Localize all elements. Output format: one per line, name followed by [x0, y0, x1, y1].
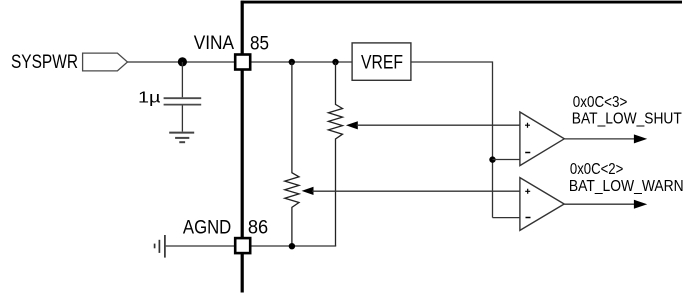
comparator U2 (BAT_LOW_WARN) — [520, 178, 564, 231]
junction: lower divider top (R2) — [289, 59, 295, 65]
wire R1 tap to U1 plus input — [357, 124, 520, 126]
svg-text:0x0C<2>: 0x0C<2> — [570, 161, 623, 178]
wire AGND pin to divider bottoms — [250, 245, 336, 247]
R2 wiper arrow — [302, 187, 314, 195]
junction: upper divider top (R1) — [332, 59, 338, 65]
R1 wiper arrow — [346, 121, 358, 129]
wire R2 tap to U2 plus input — [312, 190, 520, 192]
chip boundary left edge — [241, 1, 244, 293]
U2 plus mark — [525, 189, 530, 194]
svg-text:VINA: VINA — [194, 33, 235, 54]
capacitor C1 top lead — [181, 62, 183, 97]
svg-text:85: 85 — [250, 34, 269, 55]
junction: R2 bottom at AGND net — [289, 243, 295, 249]
wire U2 output — [564, 203, 636, 205]
wire SYSPWR to VINA pin — [128, 61, 236, 63]
U2 output arrowhead — [634, 200, 647, 209]
junction: capacitor tap — [178, 57, 187, 66]
capacitor C1 plates — [164, 97, 202, 99]
capacitor C1 bottom lead — [181, 106, 183, 132]
SYSPWR input port flag — [83, 53, 128, 71]
pin VINA 85 square — [235, 55, 250, 70]
svg-text:0x0C<3>: 0x0C<3> — [573, 94, 628, 111]
wire VREF net to U2 minus input — [493, 217, 520, 219]
junction: VREF net to U1 minus — [489, 156, 495, 162]
VREF block — [352, 43, 411, 80]
wire VREF output (right then down) — [411, 62, 493, 218]
svg-text:1µ: 1µ — [138, 90, 161, 107]
ground symbol at AGND (rotated earth) — [155, 235, 165, 258]
svg-text:BAT_LOW_WARN: BAT_LOW_WARN — [569, 178, 684, 195]
svg-text:VREF: VREF — [361, 53, 403, 74]
resistor R2 (lower divider) — [285, 62, 299, 246]
U2 minus mark — [526, 217, 531, 219]
wire VINA pin to VREF — [250, 61, 352, 63]
chip boundary top edge — [241, 1, 682, 4]
comparator U1 (BAT_LOW_SHUT) — [520, 112, 564, 166]
svg-text:86: 86 — [248, 218, 268, 239]
U1 plus mark — [525, 123, 530, 128]
svg-text:AGND: AGND — [183, 218, 231, 239]
svg-text:SYSPWR: SYSPWR — [11, 52, 78, 73]
wire U1 output — [564, 138, 636, 140]
wire VREF net to U1 minus input — [493, 159, 520, 161]
U1 output arrowhead — [634, 134, 647, 143]
pin AGND 86 square — [235, 238, 250, 253]
svg-text:BAT_LOW_SHUT: BAT_LOW_SHUT — [572, 111, 682, 128]
wire ground to AGND pin — [166, 245, 236, 247]
ground symbol below capacitor — [169, 133, 194, 143]
U1 minus mark — [525, 152, 530, 154]
resistor R1 (upper divider) — [328, 62, 342, 246]
